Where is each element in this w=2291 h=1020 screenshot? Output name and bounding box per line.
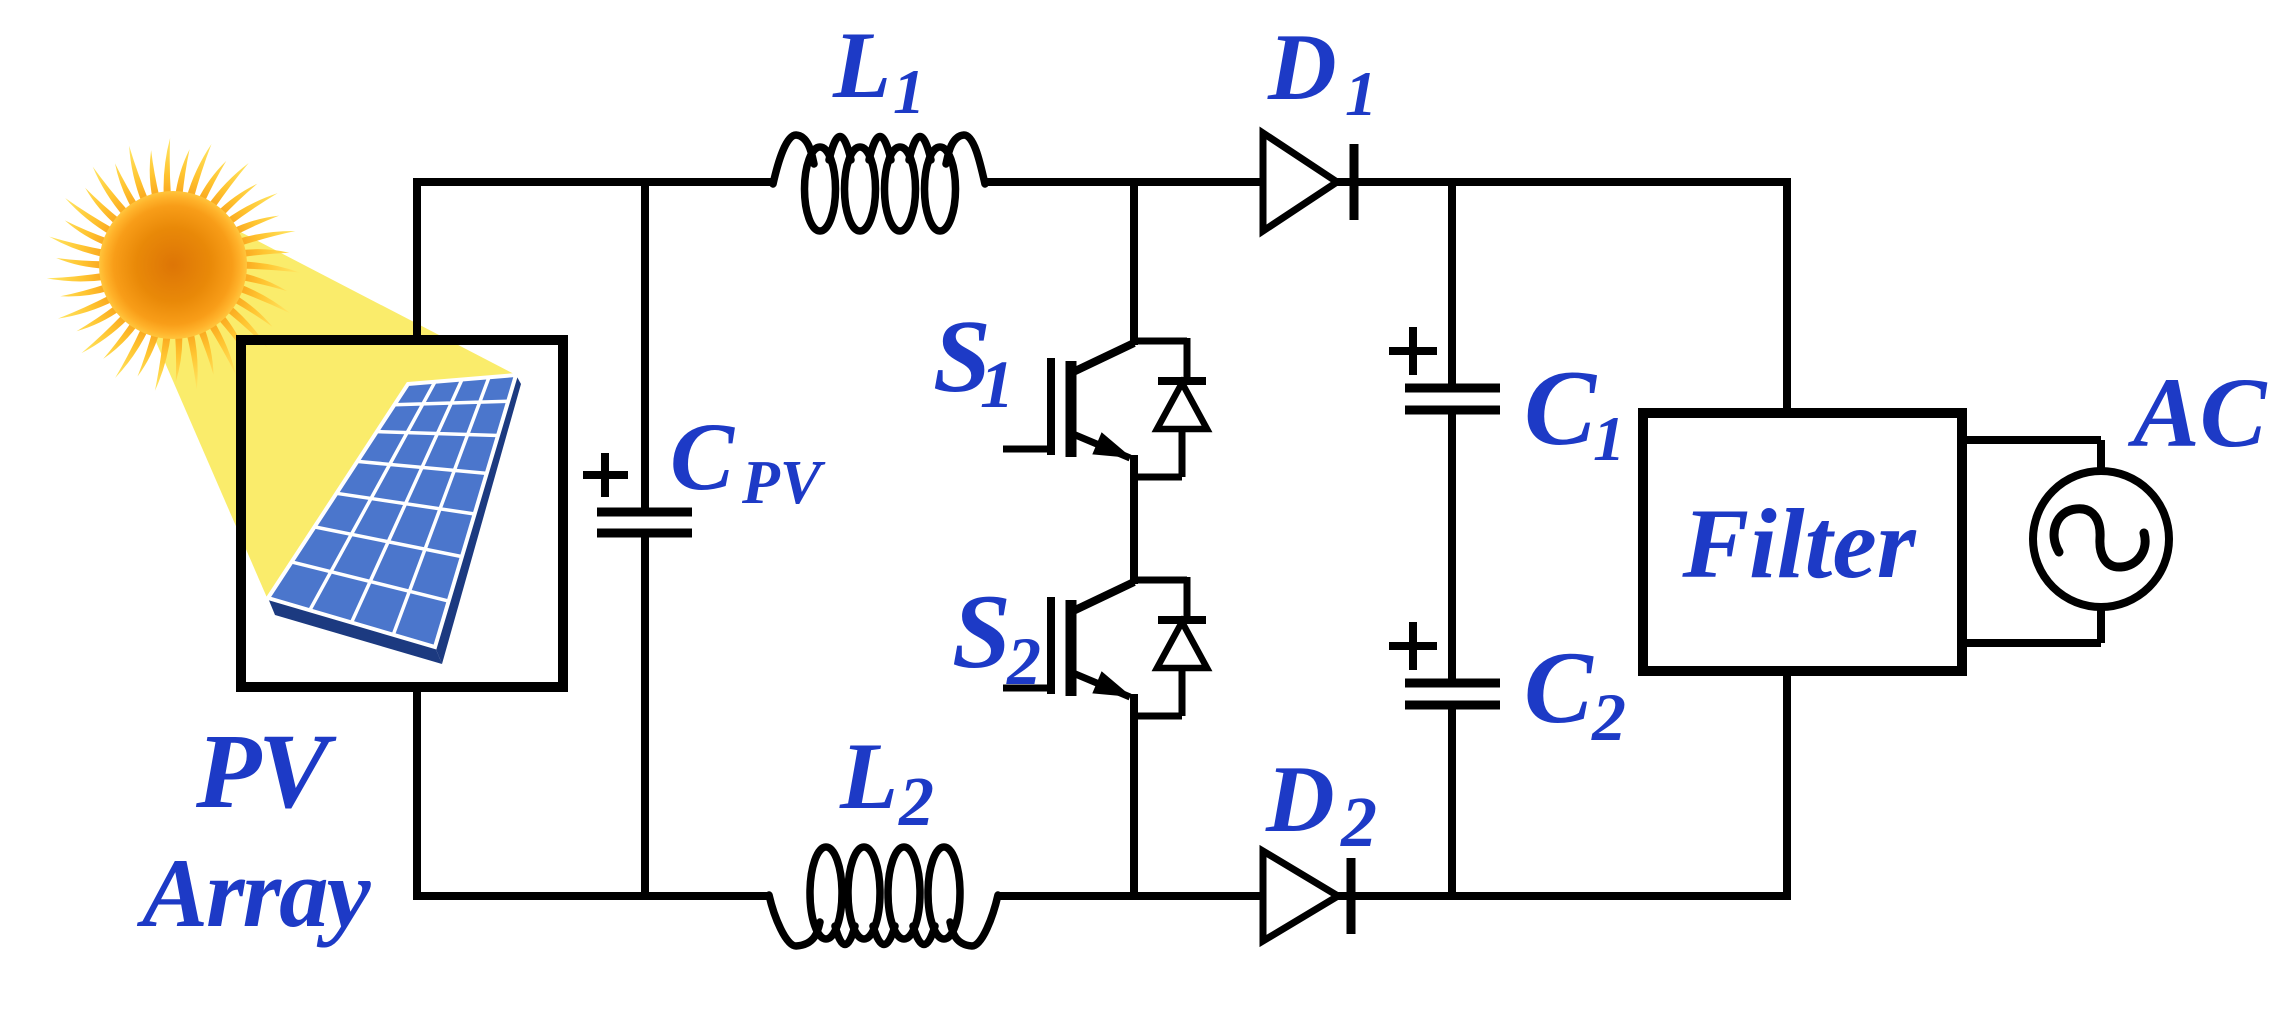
svg-text:C: C (1524, 349, 1598, 468)
svg-text:1: 1 (1593, 403, 1625, 474)
svg-text:2: 2 (1591, 679, 1626, 755)
svg-text:S: S (952, 573, 1011, 690)
svg-text:1: 1 (1345, 58, 1377, 129)
svg-text:D: D (1267, 14, 1337, 120)
svg-text:1: 1 (893, 56, 925, 127)
svg-text:L: L (839, 723, 898, 829)
svg-text:2: 2 (1340, 782, 1377, 862)
svg-text:Array: Array (136, 839, 372, 948)
svg-text:AC: AC (2127, 357, 2268, 468)
svg-text:C: C (670, 403, 735, 510)
svg-text:2: 2 (898, 764, 934, 841)
svg-text:D: D (1265, 746, 1335, 852)
svg-text:L: L (832, 12, 891, 118)
svg-text:Filter: Filter (1681, 488, 1916, 599)
svg-text:2: 2 (1006, 623, 1041, 699)
svg-text:PV: PV (195, 713, 337, 831)
svg-text:1: 1 (980, 346, 1014, 422)
svg-text:PV: PV (741, 449, 826, 517)
svg-text:C: C (1524, 631, 1594, 745)
